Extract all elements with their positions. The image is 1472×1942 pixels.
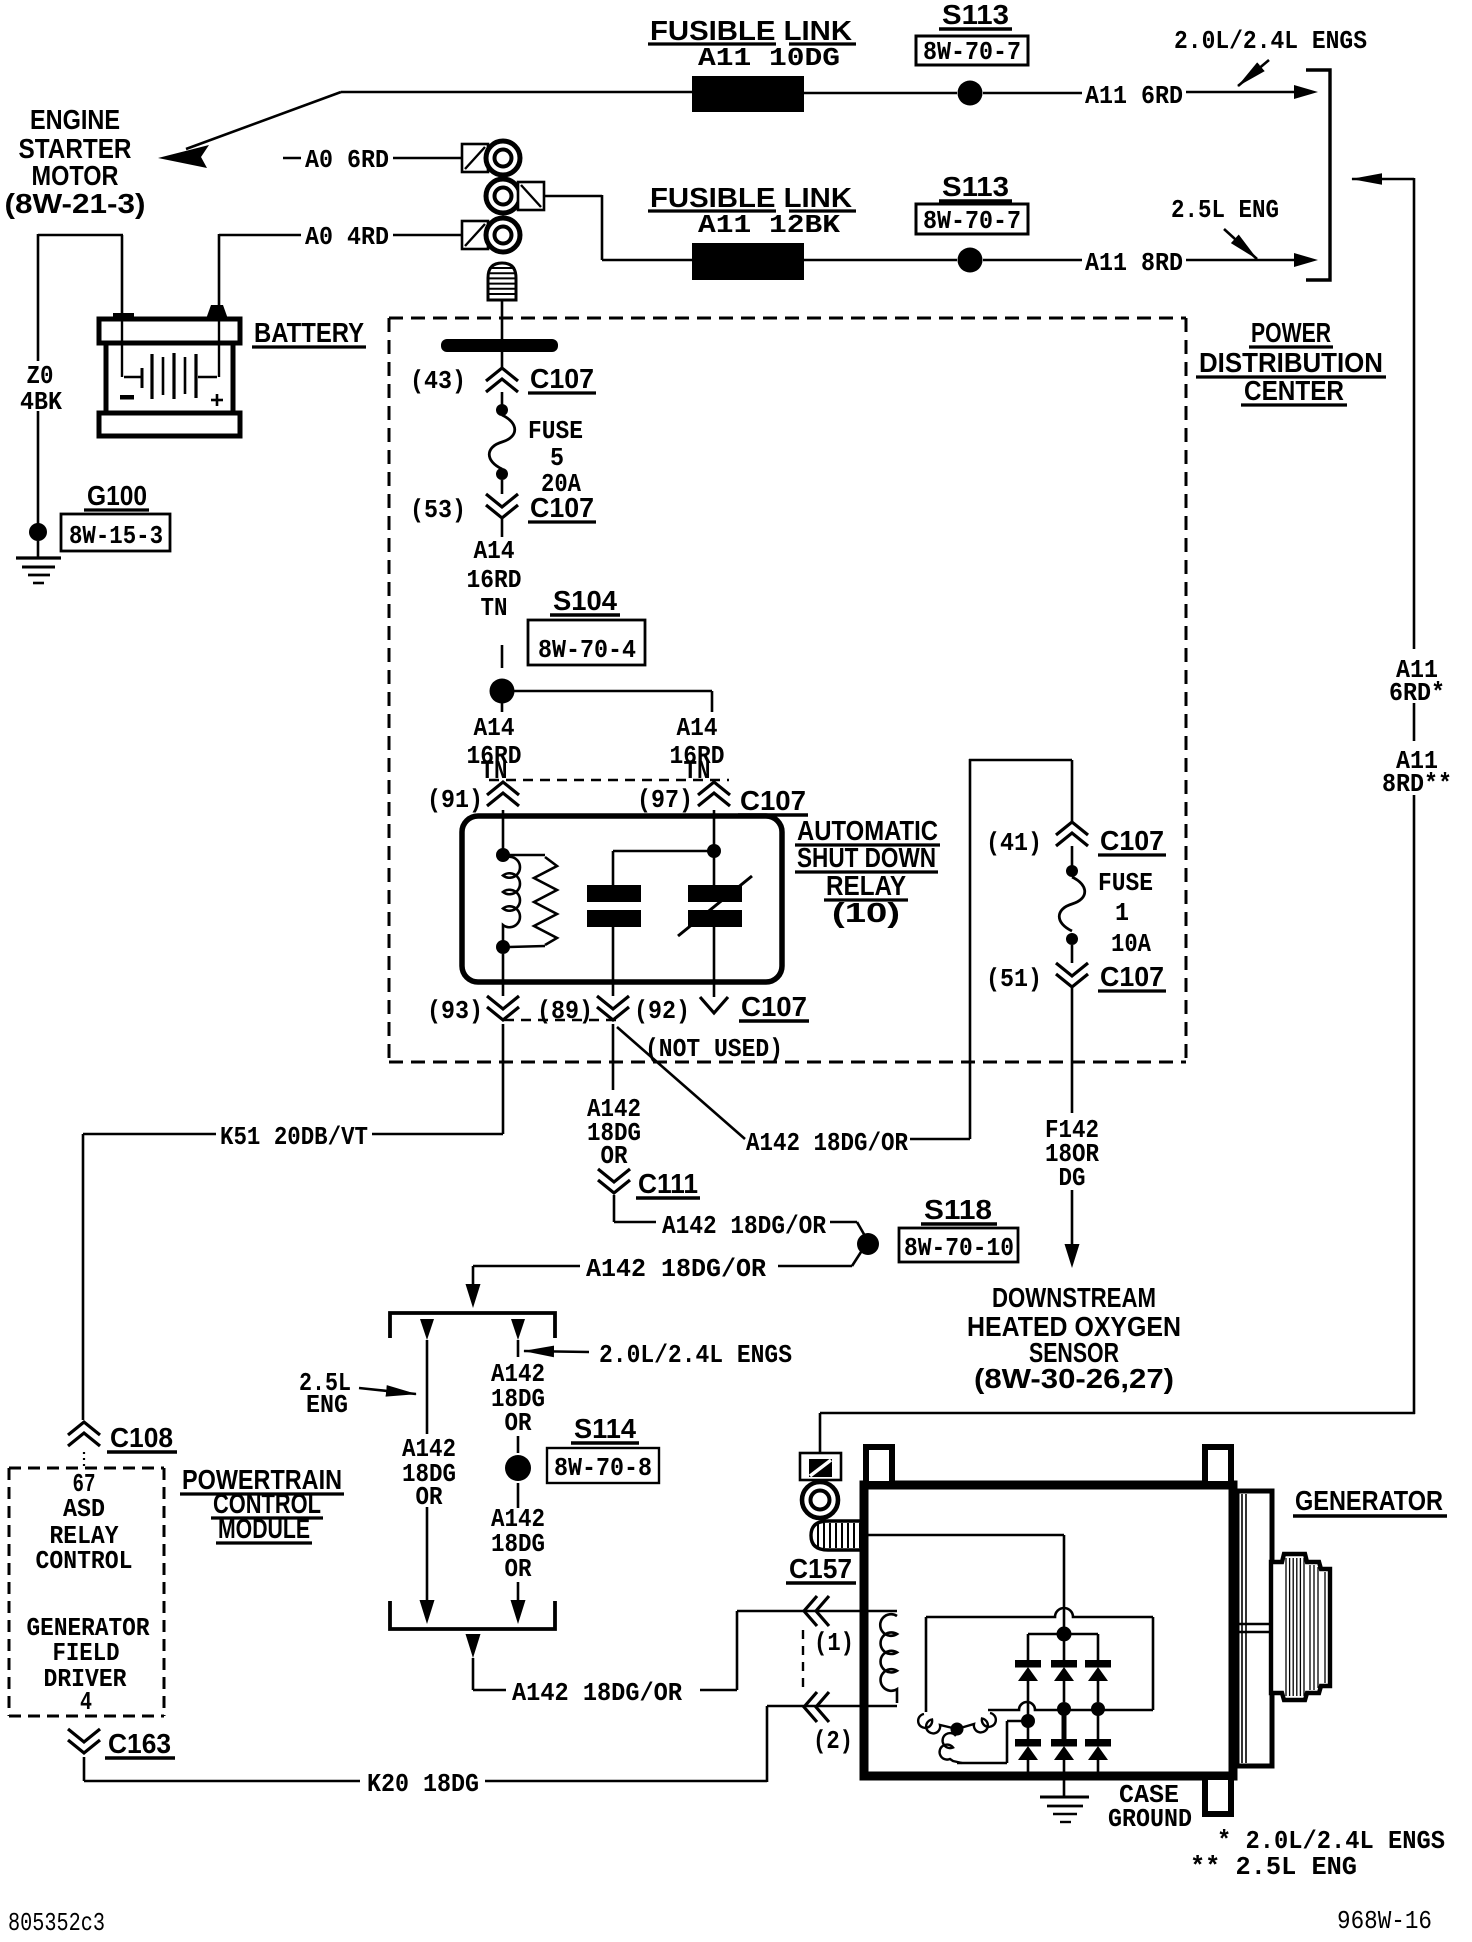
svg-text:DOWNSTREAM: DOWNSTREAM: [992, 1282, 1156, 1313]
svg-text:A11 12BK: A11 12BK: [698, 210, 840, 240]
rectifier B+ node: [1057, 1627, 1072, 1642]
wire fuse to C107 cavity 53: [501, 480, 504, 494]
wire relay output pin 92: [713, 927, 716, 997]
PCM input bracket (top): [390, 1313, 555, 1338]
svg-text:A11 6RD: A11 6RD: [1085, 81, 1183, 111]
svg-text:A142 18DG/OR: A142 18DG/OR: [746, 1128, 908, 1158]
connector C107 cavity 93 chevron: [487, 996, 519, 1020]
wire A11 6RD*/8RD** from generator to PDC: [1413, 178, 1416, 649]
svg-text:(41): (41): [986, 828, 1042, 858]
svg-text:BATTERY: BATTERY: [254, 317, 364, 348]
fusible link A11 10DG symbol: [692, 76, 804, 112]
wire from ring terminal to fusible link A11 12BK: [544, 195, 602, 198]
wire F142 to oxygen sensor: [1071, 988, 1074, 1113]
wire C157 pin 2 (field return): [767, 1705, 897, 1708]
splice S114 dot: [505, 1455, 531, 1481]
svg-text:A14: A14: [474, 536, 515, 566]
connector C107 cavity 41 chevron: [1056, 822, 1088, 846]
wire stator C to left column: [957, 1762, 1007, 1765]
wire C111 to splice S118: [613, 1195, 616, 1222]
wire to fuse 1: [1071, 846, 1074, 866]
stator top rail with hop: [926, 1608, 1153, 1617]
automatic shut down relay box: [462, 816, 782, 982]
svg-text:C107: C107: [741, 991, 807, 1022]
svg-text:(89): (89): [537, 996, 593, 1026]
connector C157 pin 2 chevron: [804, 1692, 829, 1722]
wire with arrow into PDC bracket (A11 8RD): [1186, 259, 1294, 262]
powertrain control module dashed box: [9, 1468, 164, 1716]
diagonal wire from pin 89 splice to fuse 1 feed: [617, 1027, 745, 1139]
relay coil: [503, 857, 520, 941]
wire A0 4RD: [219, 234, 301, 237]
wire pin 91 into relay: [502, 810, 505, 850]
svg-text:16RD: 16RD: [467, 565, 522, 595]
svg-text:4BK: 4BK: [20, 387, 62, 417]
svg-text:8W-15-3: 8W-15-3: [69, 521, 163, 551]
wire relay pin 93 to PCM (K51): [502, 1024, 505, 1134]
relay connector dashed line (bottom): [504, 1019, 617, 1021]
stator phase bus with hop over left column: [988, 1702, 1153, 1710]
svg-text:ASD: ASD: [63, 1494, 105, 1524]
PDC input bracket: [1306, 70, 1330, 280]
svg-text:DISTRIBUTION: DISTRIBUTION: [1199, 347, 1383, 378]
splice S104 dot: [490, 679, 515, 704]
svg-text:8W-70-7: 8W-70-7: [923, 206, 1021, 236]
generator case ground wire: [1063, 1776, 1066, 1797]
svg-text:C107: C107: [530, 363, 594, 394]
svg-text:8W-70-4: 8W-70-4: [538, 635, 636, 665]
svg-text:(43): (43): [410, 366, 466, 396]
svg-text:(8W-30-26,27): (8W-30-26,27): [974, 1363, 1174, 1394]
wire K20 up to C157 pin 2: [766, 1706, 769, 1782]
pointer arrow 2.5L engine: [1224, 229, 1257, 259]
rectifier mid node (right): [1091, 1702, 1105, 1716]
rectifier diode (lower left): [1015, 1739, 1041, 1747]
connector C157 pin 1 chevron: [804, 1596, 829, 1626]
ring terminal (battery to starter A0 6RD): [462, 144, 488, 172]
svg-text:8W-70-10: 8W-70-10: [904, 1233, 1014, 1263]
wire: fusible link A11 10DG feed to starter motor (diagonal): [186, 92, 341, 149]
svg-text:C163: C163: [108, 1728, 171, 1759]
svg-text:TN: TN: [481, 593, 508, 623]
ground symbol G100: [37, 541, 40, 558]
connector C107 cavity 43 chevron: [486, 368, 518, 392]
splice S113 dot (lower): [958, 248, 983, 273]
power distribution center dashed box: [389, 317, 1186, 320]
generator mounting tab (top right): [1205, 1448, 1231, 1481]
stator winding A (left curl): [918, 1714, 957, 1733]
ground splice G100 dot: [29, 523, 47, 541]
arrow from generator output wire into PDC: [1352, 178, 1414, 181]
svg-text:C107: C107: [530, 492, 594, 523]
connector C107 cavity 89 chevron: [597, 996, 629, 1020]
svg-text:ENG: ENG: [306, 1390, 348, 1420]
wire right column: [1097, 1709, 1100, 1740]
svg-text:OR: OR: [601, 1141, 628, 1171]
wire with arrow into PDC bracket (A11 6RD): [1186, 91, 1294, 94]
case ground symbol: [1040, 1796, 1089, 1799]
svg-text:CENTER: CENTER: [1244, 375, 1344, 406]
svg-text:A11 10DG: A11 10DG: [698, 43, 840, 73]
wire Z0 4BK to ground G100: [37, 234, 40, 361]
connector C107 cavity 91 chevron: [487, 782, 519, 806]
svg-text:2.5L ENG: 2.5L ENG: [1171, 195, 1279, 225]
svg-text:2.0L/2.4L ENGS: 2.0L/2.4L ENGS: [599, 1340, 792, 1370]
rectifier B+ bus: [1028, 1633, 1098, 1636]
svg-text:10A: 10A: [1111, 929, 1151, 959]
fuse 1 10A symbol: [1066, 865, 1078, 877]
generator mounting tab (bottom right): [1205, 1780, 1231, 1813]
rectifier diode (lower right): [1085, 1739, 1111, 1747]
relay connector dashed line (top): [489, 779, 729, 781]
wire C108 to PCM: [83, 1452, 85, 1468]
svg-text:MODULE: MODULE: [218, 1513, 310, 1544]
svg-text:(8W-21-3): (8W-21-3): [5, 188, 146, 219]
ring terminal (fusible link A11 12BK): [486, 179, 520, 213]
pointer arrow 2.0L/2.4L ENGS: [524, 1351, 589, 1352]
svg-text:(51): (51): [986, 964, 1042, 994]
generator B+ output stud: [811, 1521, 865, 1550]
wire battery positive to A0 4RD: [218, 234, 221, 306]
wire C163 to K20: [83, 1757, 86, 1781]
svg-text:OR: OR: [505, 1554, 532, 1584]
svg-text:FUSIBLE LINK: FUSIBLE LINK: [650, 182, 852, 213]
connector C107 cavity 53 chevron: [486, 494, 518, 518]
connector C107 cavity 92 open end: [700, 997, 728, 1013]
connector C111 chevron: [598, 1169, 630, 1193]
svg-text:A14: A14: [474, 713, 515, 743]
svg-text:(91): (91): [427, 785, 483, 815]
battery feed stud into PDC: [488, 263, 516, 300]
rectifier diode (upper left): [1015, 1660, 1041, 1668]
svg-text:MOTOR: MOTOR: [32, 160, 119, 191]
svg-text:GENERATOR: GENERATOR: [1295, 1485, 1443, 1516]
svg-text:(53): (53): [410, 495, 466, 525]
generator pulley: [1271, 1554, 1330, 1700]
svg-text:SHUT DOWN: SHUT DOWN: [797, 842, 936, 873]
svg-text:A142 18DG/OR: A142 18DG/OR: [662, 1211, 826, 1241]
svg-text:8RD**: 8RD**: [1382, 769, 1452, 799]
wire to fuse 5: [501, 392, 504, 405]
stator winding center node: [951, 1723, 964, 1736]
svg-text:C157: C157: [789, 1553, 852, 1584]
connector C108 chevron: [68, 1422, 100, 1446]
svg-text:S114: S114: [574, 1413, 636, 1444]
connector C107 cavity 97 chevron: [698, 782, 730, 806]
pointer arrow 2.0L/2.4L engines: [1238, 60, 1269, 86]
connector C163 chevron: [68, 1729, 100, 1753]
svg-text:C111: C111: [638, 1168, 698, 1199]
svg-text:8W-70-7: 8W-70-7: [923, 37, 1021, 67]
arrow into PCM bracket: [472, 1288, 475, 1290]
wire to fusible link: [341, 91, 692, 94]
svg-text:S113: S113: [942, 0, 1009, 30]
generator body outline: [864, 1485, 1233, 1776]
stator winding B (right curl): [957, 1713, 996, 1732]
svg-text:S104: S104: [553, 585, 617, 616]
wire C157 pin 1 (field feed): [737, 1610, 897, 1613]
svg-text:A0 6RD: A0 6RD: [305, 145, 389, 175]
svg-text:FUSE: FUSE: [528, 416, 583, 446]
C157 dashed connector line: [802, 1630, 804, 1692]
battery positive terminal: [206, 305, 228, 319]
svg-text:805352c3: 805352c3: [8, 1908, 105, 1938]
svg-text:C107: C107: [1100, 961, 1164, 992]
svg-text:ENGINE: ENGINE: [30, 104, 120, 135]
svg-text:(1): (1): [814, 1628, 854, 1658]
connector C107 cavity 51 chevron: [1056, 963, 1088, 987]
svg-text:DG: DG: [1059, 1163, 1086, 1193]
svg-text:G100: G100: [87, 480, 147, 511]
wire fuse 1 to C107 cavity 51: [1071, 945, 1074, 963]
wire A142 up into PDC to fuse 1: [910, 1138, 970, 1141]
relay coil node (top): [496, 848, 510, 862]
svg-text:CONTROL: CONTROL: [36, 1546, 133, 1576]
wire fusible link to splice S113: [804, 92, 957, 95]
wire A11 6RD to PDC: [983, 92, 1082, 95]
svg-text:S118: S118: [924, 1194, 992, 1225]
svg-text:C107: C107: [740, 785, 806, 816]
svg-text:1: 1: [1115, 898, 1129, 928]
generator field coil: [880, 1614, 897, 1703]
svg-text:(10): (10): [832, 897, 900, 928]
generator mounting tab (top left): [866, 1448, 892, 1481]
svg-text:TN: TN: [684, 756, 711, 786]
PDC bus bar: [441, 339, 558, 352]
generator B+ terminal connector: [800, 1453, 841, 1480]
svg-text:(93): (93): [427, 996, 483, 1026]
PCM output bracket (bottom): [390, 1601, 555, 1629]
generator end bracket: [1237, 1491, 1272, 1766]
fuse 5 20A symbol: [496, 404, 508, 416]
svg-text:968W-16: 968W-16: [1337, 1906, 1432, 1936]
wire relay output pin 89: [612, 927, 615, 996]
svg-text:OR: OR: [416, 1482, 443, 1512]
svg-text:POWER: POWER: [1251, 317, 1331, 348]
svg-text:A0 4RD: A0 4RD: [305, 222, 389, 252]
wire fusible link to splice S113 (lower): [804, 259, 957, 262]
stator winding C (lower curl): [940, 1733, 962, 1763]
svg-text:6RD*: 6RD*: [1389, 678, 1445, 708]
svg-text:C108: C108: [110, 1422, 173, 1453]
relay coil node (bottom): [496, 940, 510, 954]
svg-text:OR: OR: [505, 1408, 532, 1438]
svg-text:K20 18DG: K20 18DG: [367, 1769, 479, 1799]
battery negative terminal: [113, 313, 134, 320]
svg-text:S113: S113: [942, 171, 1009, 202]
relay contact feed node: [707, 844, 721, 858]
rectifier diode (upper center): [1051, 1660, 1077, 1668]
relay resistor (parallel with coil): [509, 854, 545, 857]
svg-text:A14: A14: [677, 713, 718, 743]
svg-text:8W-70-8: 8W-70-8: [554, 1453, 652, 1483]
svg-text:A142 18DG/OR: A142 18DG/OR: [586, 1254, 766, 1284]
svg-text:FUSIBLE LINK: FUSIBLE LINK: [650, 15, 852, 46]
generator B+ ring washer: [802, 1482, 838, 1518]
relay movable contact arm: [678, 876, 752, 936]
ring terminal (battery positive A0 4RD): [462, 221, 488, 249]
battery cell symbol: [121, 318, 123, 377]
relay contact fixed bars (left pair): [587, 885, 641, 902]
wire B+ stud to rectifier: [865, 1534, 1064, 1537]
svg-text:(NOT USED): (NOT USED): [645, 1034, 783, 1064]
wire A142 2.0L/2.4L branch (right): [511, 1319, 525, 1340]
svg-text:C107: C107: [1100, 825, 1164, 856]
splice S118 dot: [857, 1233, 879, 1255]
svg-text:(92): (92): [634, 996, 690, 1026]
wire S104 to relay pin 91: [501, 703, 504, 712]
svg-text:K51 20DB/VT: K51 20DB/VT: [220, 1122, 368, 1152]
wire relay pin 89 to C111: [612, 1024, 615, 1090]
wire A142 2.5L branch (left): [420, 1319, 434, 1340]
svg-text:A11 8RD: A11 8RD: [1085, 248, 1183, 278]
svg-text:(2): (2): [813, 1726, 853, 1756]
fusible link A11 12BK symbol: [692, 243, 804, 280]
wire S104 branch to relay pin 97: [514, 690, 712, 693]
wire pin 97 into relay: [713, 810, 716, 845]
svg-text:A142 18DG/OR: A142 18DG/OR: [512, 1678, 682, 1708]
svg-text:(97): (97): [637, 785, 693, 815]
wire A142 output to generator field (C157 pin 1): [466, 1634, 481, 1658]
wire battery negative: [121, 235, 124, 315]
rectifier mid node (center): [1057, 1702, 1071, 1716]
pointer arrow 2.5L ENG: [359, 1388, 416, 1394]
wire bus to C107 cavity 43: [501, 352, 504, 368]
rectifier diode (upper right): [1085, 1660, 1111, 1668]
relay contact fixed bars (right pair): [688, 885, 742, 902]
battery B1 body: [99, 319, 240, 343]
svg-text:** 2.5L ENG: ** 2.5L ENG: [1190, 1852, 1357, 1882]
svg-text:4: 4: [80, 1687, 92, 1717]
wire S118 to PCM bracket: [852, 1252, 861, 1266]
wire relay coil to pin 93: [502, 954, 505, 996]
svg-text:FUSE: FUSE: [1098, 868, 1153, 898]
wire A0 6RD: [283, 157, 301, 160]
wire A11 8RD to PDC: [983, 259, 1082, 262]
wire A14 to splice S104: [501, 519, 504, 537]
rectifier mid node (left lower): [1021, 1714, 1035, 1728]
generator shaft: [1233, 1623, 1272, 1625]
splice S113 dot (upper): [958, 81, 983, 106]
wire center column (thick): [1062, 1712, 1067, 1740]
relay contact feed wires: [613, 850, 714, 853]
svg-text:2.0L/2.4L ENGS: 2.0L/2.4L ENGS: [1174, 26, 1367, 56]
svg-text:GROUND: GROUND: [1108, 1804, 1192, 1834]
rectifier diode (lower center): [1051, 1739, 1077, 1747]
wire stud to bus bar: [501, 300, 504, 340]
